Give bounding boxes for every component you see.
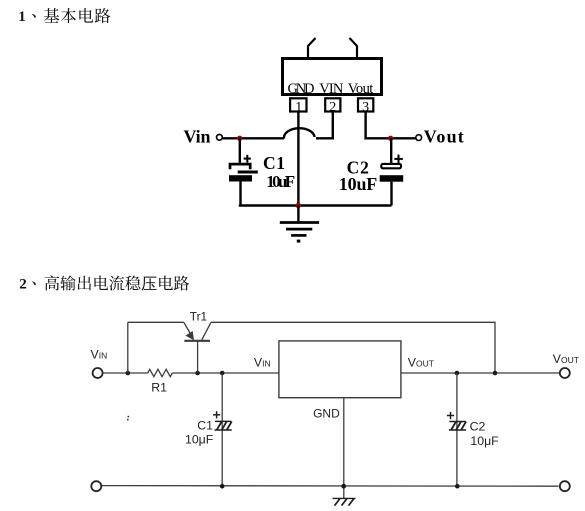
regulator block: [279, 341, 401, 398]
svg-text:VIN: VIN: [319, 81, 344, 97]
node: Vout/C2 junction: [388, 136, 393, 141]
svg-text:Tr1: Tr1: [190, 310, 207, 324]
wire: base down to node: [197, 341, 199, 373]
wire: R1 to regulator VIN: [172, 372, 279, 374]
ground symbol (hatched): [333, 498, 356, 505]
node: collector drop junction: [493, 371, 498, 376]
node: C1 on bottom rail: [220, 484, 225, 489]
C1 middle plate bar: [238, 171, 258, 174]
svg-text:10μF: 10μF: [470, 434, 499, 448]
U1 pin 1 box: [290, 98, 306, 115]
bottom right terminal: [560, 481, 570, 491]
U1 top tab pin right: [350, 38, 358, 57]
svg-text:10uF: 10uF: [266, 172, 295, 191]
svg-text:10μF: 10μF: [185, 433, 214, 447]
C1 capacitor hatched symbol: [215, 421, 232, 430]
transistor Q1 base bar: [184, 340, 210, 342]
node: C1 junction: [220, 371, 225, 376]
svg-text:1: 1: [18, 9, 26, 25]
wire: collector rail to output drop: [211, 322, 495, 373]
bottom left terminal: [91, 481, 101, 491]
node: ground rail junction: [296, 203, 301, 208]
ground rail wire: [239, 204, 392, 206]
VOUT terminal circle: [560, 368, 570, 378]
U1 top tab pin left: [308, 38, 316, 57]
capacitor C2 top lead: [390, 138, 392, 163]
capacitor C2 lead (circuit 2): [456, 373, 458, 486]
C1 polarity plus: [213, 411, 220, 418]
C2 polarity plus: [447, 412, 454, 419]
svg-text:VOUT: VOUT: [553, 352, 579, 366]
VIN input terminal: [93, 368, 103, 378]
Vout terminal circle: [416, 135, 422, 141]
ground symbol: [280, 206, 319, 243]
capacitor C1 lead (circuit 2): [221, 373, 223, 486]
svg-text:C1: C1: [197, 418, 213, 432]
wire: pin3 Vout down and right to Vout terminal: [366, 112, 416, 139]
svg-text:GND: GND: [313, 407, 340, 421]
Vin terminal circle: [217, 134, 223, 140]
node: Tr1 base junction: [195, 371, 200, 376]
stray ink specks: [127, 416, 129, 421]
C2 bottom lead: [390, 182, 392, 206]
C2 top plate: [381, 164, 401, 168]
svg-text:GND: GND: [288, 81, 315, 97]
svg-text:C2: C2: [470, 420, 486, 434]
svg-text:VIN: VIN: [91, 348, 108, 362]
bottom return rail: [101, 485, 558, 488]
C2 bottom plate: [380, 175, 404, 182]
wire: GND pin down to ground: [343, 398, 345, 499]
C1 bottom lead: [239, 182, 241, 206]
resistor R1: [148, 369, 173, 376]
wire: pin1 GND down to ground rail: [297, 112, 299, 206]
svg-text:R1: R1: [151, 380, 167, 394]
regulator U1 package outline: [283, 59, 382, 95]
svg-text:Vout: Vout: [424, 127, 464, 147]
capacitor C1 top lead: [239, 138, 241, 163]
wire hop arc over GND wire: [284, 128, 315, 138]
wire: regulator output to VOUT terminal: [401, 372, 560, 374]
wire: Vin to hop arc: [222, 137, 284, 139]
C1 polarity plus: [244, 155, 251, 163]
svg-text:Vin: Vin: [184, 127, 211, 147]
svg-text:C1: C1: [263, 153, 285, 173]
C2 polarity plus: [394, 155, 403, 164]
svg-text:Vout: Vout: [348, 81, 374, 97]
svg-text:2: 2: [19, 276, 27, 292]
node: C2 junction: [455, 371, 460, 376]
U1 pin 2 box: [325, 98, 340, 115]
wire: riser up to collector rail: [127, 322, 129, 373]
node: GND on bottom rail: [341, 484, 346, 489]
node: Vin/C1 junction: [237, 136, 242, 141]
svg-text:VOUT: VOUT: [408, 356, 434, 370]
C1 bottom plate: [229, 175, 252, 181]
wire: input to R1: [103, 372, 148, 374]
C1 top plate: [230, 164, 250, 169]
node: R1 left / riser junction: [126, 371, 131, 376]
C2 capacitor hatched symbol: [449, 422, 466, 431]
U1 pin 3 box: [358, 98, 373, 115]
wire: emitter rail: [128, 321, 184, 323]
svg-text:VIN: VIN: [254, 356, 271, 370]
wire: pin2 VIN down and left: [316, 112, 333, 139]
svg-text:10uF: 10uF: [339, 174, 378, 194]
node: C2 on bottom rail: [455, 484, 460, 489]
transistor Q1 emitter lead with arrow: [184, 322, 194, 340]
transistor Q1 collector lead: [201, 322, 211, 341]
